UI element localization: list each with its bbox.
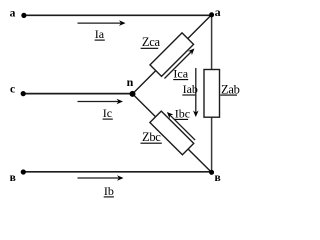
svg-text:а: а [10, 8, 16, 20]
svg-text:Ic: Ic [103, 106, 112, 120]
svg-text:Zbc: Zbc [142, 130, 161, 144]
svg-text:в: в [10, 172, 16, 184]
svg-text:a: a [215, 5, 221, 19]
svg-text:Ibc: Ibc [175, 106, 190, 120]
current arrow Ica [162, 47, 196, 81]
current arrow Ic [78, 99, 124, 105]
impedance Zab (box on vertical a-b branch) [204, 70, 220, 118]
wire n-b diagonal [133, 94, 212, 172]
wire phase a (top horizontal) [24, 14, 212, 16]
svg-text:Zca: Zca [142, 35, 161, 49]
node в (bottom right corner) [209, 170, 214, 175]
label Ib [104, 184, 114, 198]
wire phase c (middle horizontal to node n) [23, 93, 132, 95]
impedance Zca (box on n-a diagonal) [150, 33, 194, 77]
svg-text:Ia: Ia [95, 27, 105, 41]
wire a-b vertical right branch [211, 15, 213, 172]
node a (top right corner) [209, 12, 214, 17]
current arrow Ia [78, 20, 126, 26]
node n (neutral point) [130, 91, 136, 97]
svg-text:Zab: Zab [221, 82, 240, 96]
node с (left terminal of phase c) [21, 91, 26, 96]
svg-text:с: с [10, 84, 15, 96]
svg-text:n: n [127, 75, 134, 89]
svg-text:Ib: Ib [104, 184, 114, 198]
svg-text:Ica: Ica [173, 67, 188, 81]
node в (left terminal of phase b) [21, 169, 26, 174]
label Ia [95, 27, 105, 41]
svg-text:Iab: Iab [183, 82, 198, 96]
node а (left terminal of phase a) [21, 13, 26, 18]
wire phase b (bottom horizontal) [23, 171, 211, 173]
svg-text:в: в [215, 172, 221, 184]
label Ic [103, 106, 113, 120]
wire n-a diagonal [133, 15, 212, 94]
label Zab [220, 82, 239, 96]
label Zbc [141, 130, 162, 144]
current arrow Iab [193, 68, 199, 117]
label Zca [141, 35, 161, 49]
current arrow Ibc [165, 110, 197, 142]
label Ica [173, 67, 189, 81]
current arrow Ib [78, 175, 124, 181]
label Ibc [175, 106, 191, 120]
label Iab [182, 82, 198, 96]
impedance Zbc (box on n-b diagonal) [150, 111, 194, 155]
